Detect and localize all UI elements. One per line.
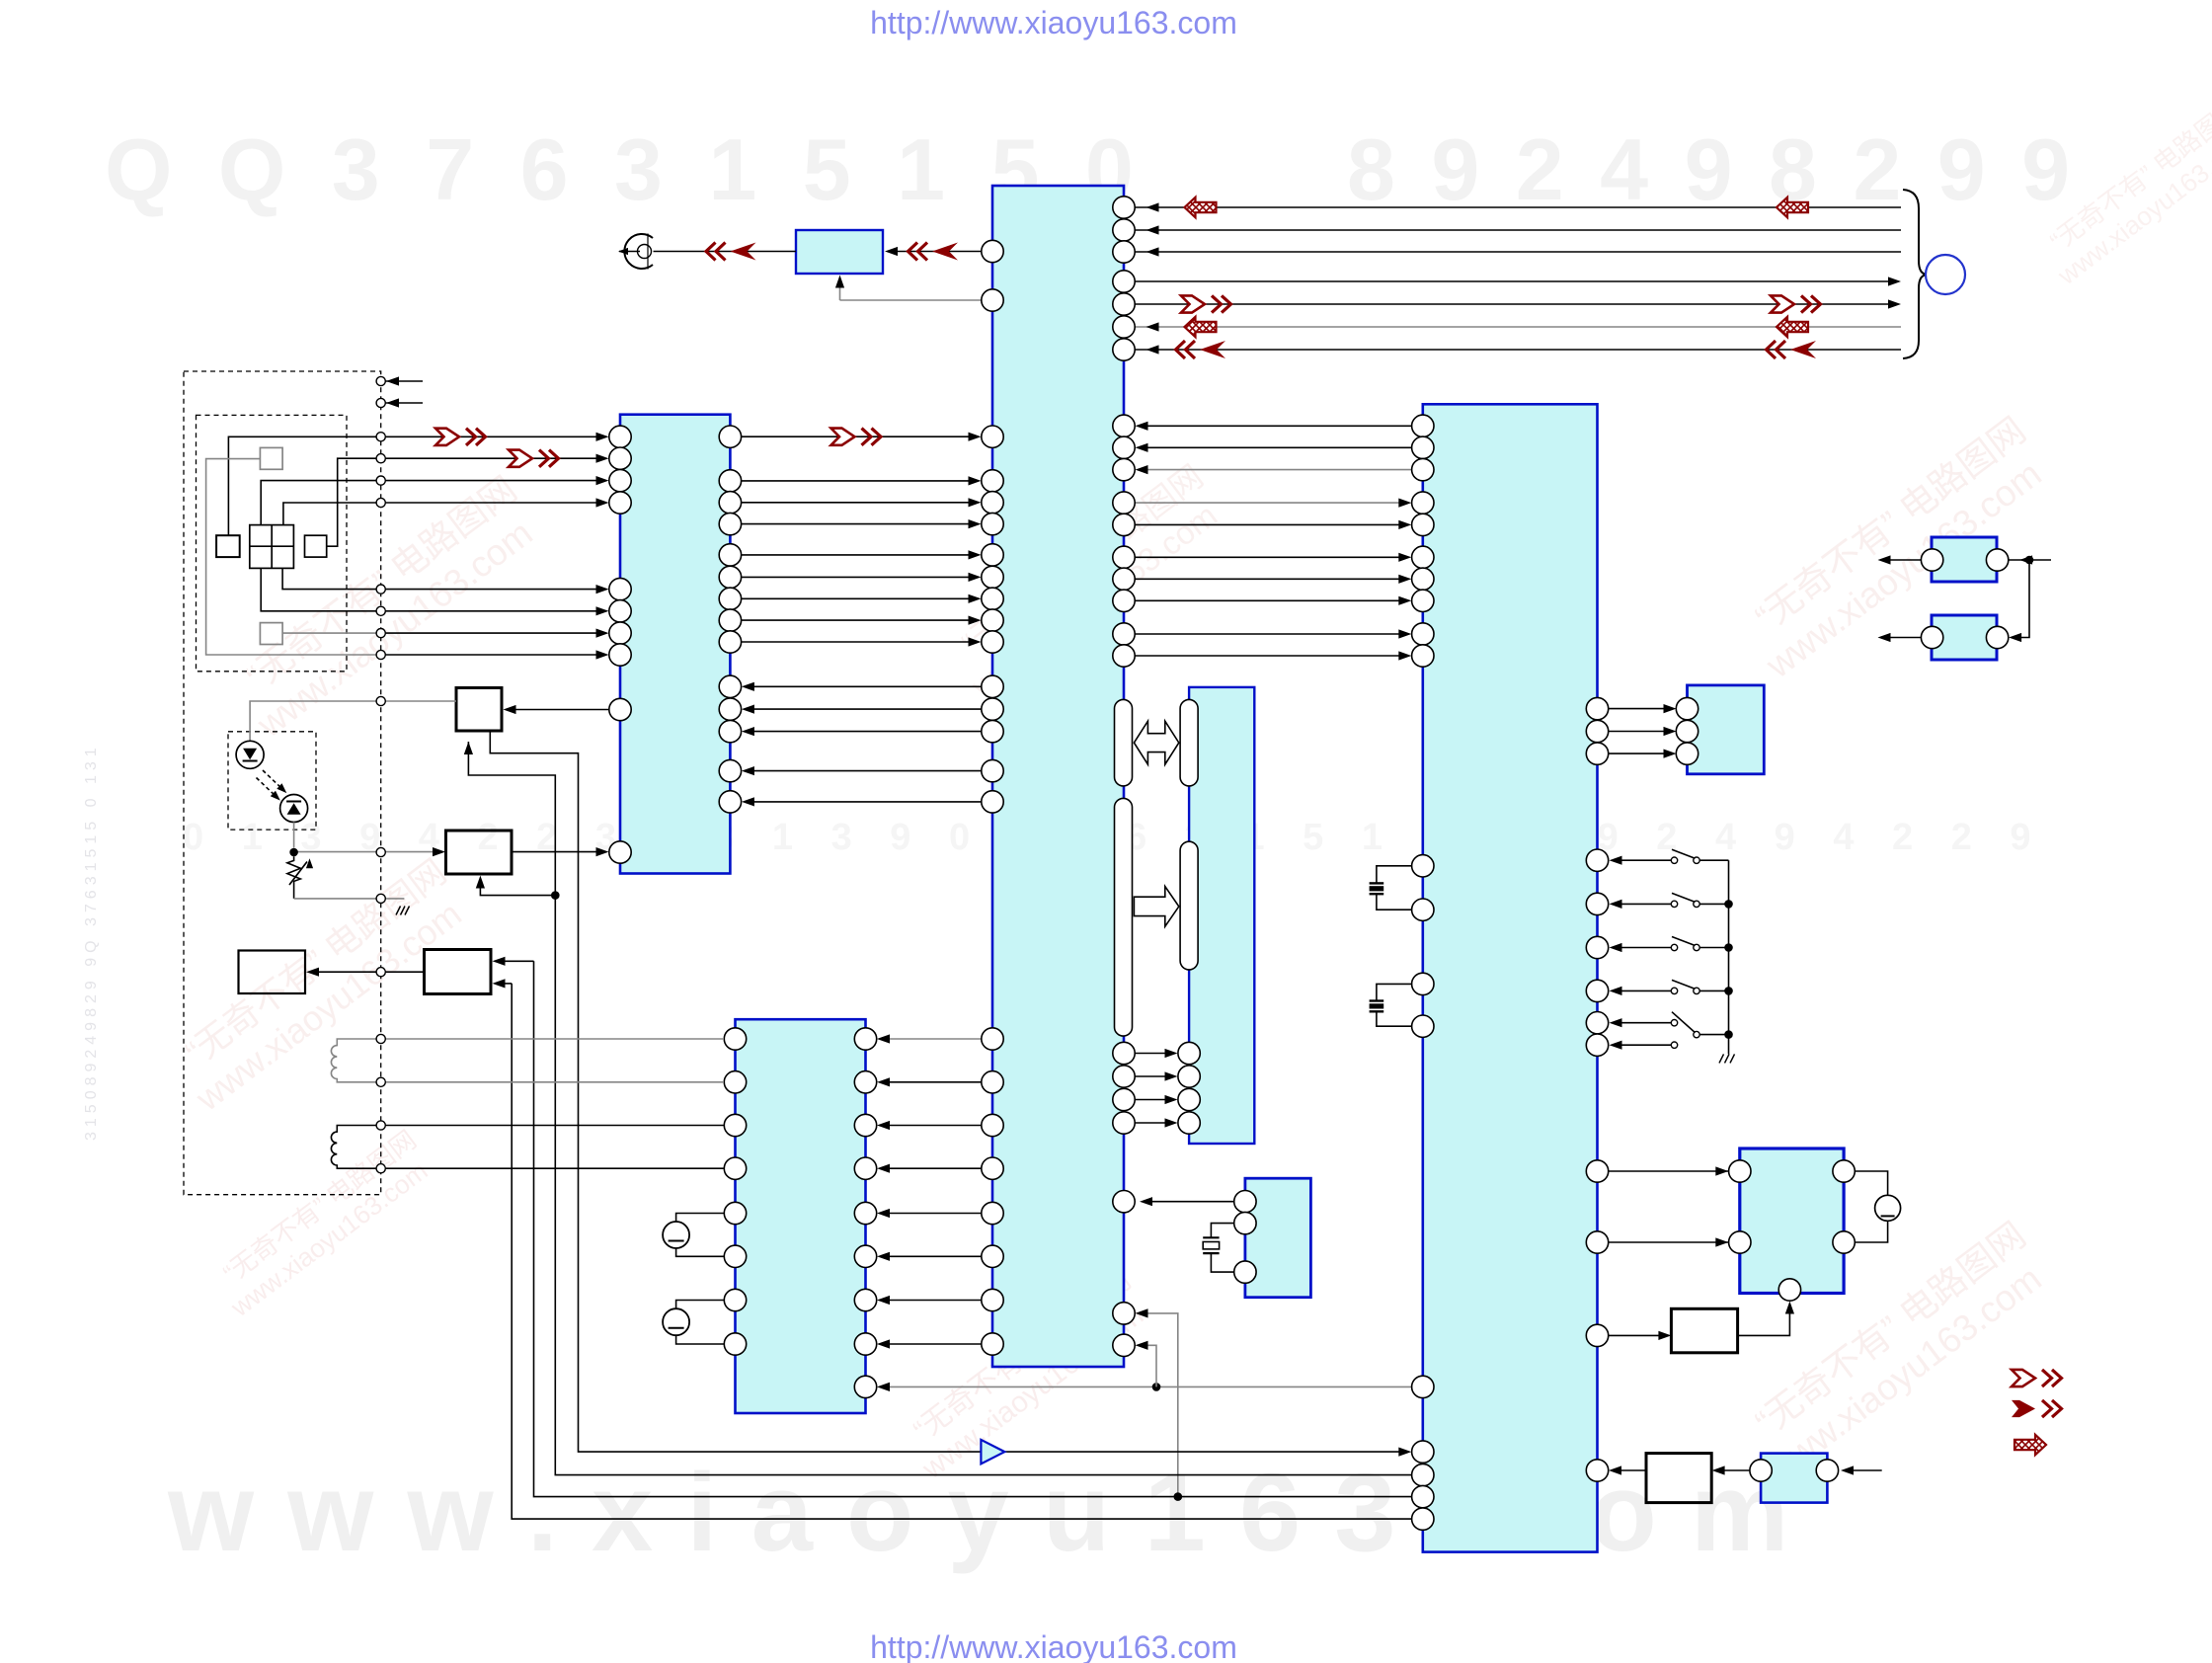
- svg-text:Q Q 3 7 6 3 1 5 1 5 0: Q Q 3 7 6 3 1 5 1 5 0: [105, 120, 1145, 218]
- svg-text:315089249829 9Q 37631515 0 131: 315089249829 9Q 37631515 0 131: [83, 743, 100, 1141]
- svg-text:8 9 2 4 9 8 2 9 9: 8 9 2 4 9 8 2 9 9: [1347, 120, 2076, 218]
- svg-text:http://www.xiaoyu163.com: http://www.xiaoyu163.com: [870, 1629, 1237, 1663]
- svg-text:http://www.xiaoyu163.com: http://www.xiaoyu163.com: [870, 5, 1237, 40]
